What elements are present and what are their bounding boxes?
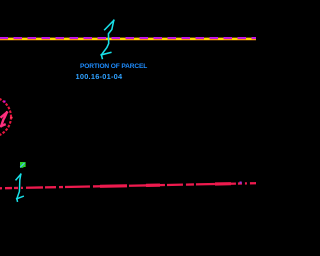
wire: thicker blobs on crimson line <box>100 184 231 187</box>
wire: yellow dashes of top boundary line <box>0 38 256 40</box>
wire: magenta dashed top boundary line <box>0 37 256 39</box>
wire: orange underlay of top boundary line <box>0 39 256 41</box>
node: magenta tick on circle top <box>4 101 6 103</box>
node: red tick on circle right <box>10 117 12 119</box>
node: green point marker with blue diagonal <box>20 162 26 168</box>
svg-text:PORTION OF PARCEL: PORTION OF PARCEL <box>80 63 147 70</box>
arrow symbol A1: cyan zigzag arrow crossing top line <box>101 20 114 58</box>
node: red dotted circle at left edge <box>0 97 11 137</box>
node: purple dot on crimson line <box>240 182 242 184</box>
svg-text:100.16-01-04: 100.16-01-04 <box>76 72 123 81</box>
wire: crimson dashed bottom boundary line <box>0 183 256 188</box>
arrow symbol A3: pink zigzag mark inside circle <box>1 113 7 127</box>
arrow symbol A2: small cyan zigzag arrow crossing bottom line <box>16 174 23 201</box>
